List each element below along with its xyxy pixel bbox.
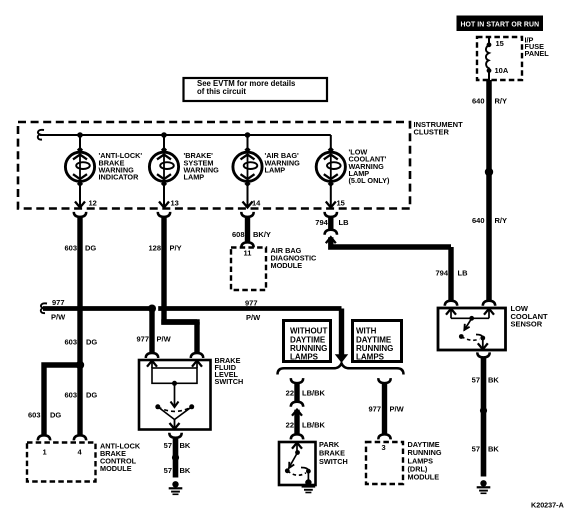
svg-text:LAMPS: LAMPS	[290, 353, 319, 362]
sensor terminal arrow left	[446, 309, 456, 319]
svg-text:22: 22	[286, 389, 294, 398]
park brake switch contact left	[285, 468, 290, 473]
svg-text:977: 977	[368, 405, 381, 414]
ground G at brake fluid switch	[169, 481, 183, 494]
svg-text:DG: DG	[86, 391, 97, 400]
label low coolant warning lamp	[349, 148, 391, 185]
svg-text:57: 57	[164, 466, 172, 475]
connector at sensor right terminal	[483, 301, 495, 306]
svg-text:57: 57	[472, 376, 480, 385]
label brake fluid level switch	[215, 356, 244, 386]
svg-text:MODULE: MODULE	[100, 464, 132, 473]
wire tap to lamp4	[330, 135, 332, 150]
svg-text:CLUSTER: CLUSTER	[414, 128, 450, 137]
park brake switch right contact	[306, 469, 311, 474]
svg-text:640: 640	[472, 97, 485, 106]
in-line connector female half	[325, 230, 337, 235]
lamp air bag warning lamp	[233, 147, 262, 187]
connector C2 pin13	[158, 212, 170, 217]
svg-text:4: 4	[78, 448, 83, 457]
bus wire in cluster	[40, 134, 331, 136]
svg-text:977: 977	[52, 298, 65, 307]
977 continuation hook	[41, 303, 47, 313]
node lamp2 tap	[161, 132, 167, 138]
svg-text:12: 12	[89, 199, 97, 208]
switch output V	[158, 407, 192, 420]
label 977 P/W DRL	[368, 405, 404, 414]
wire 57 BK from sensor	[481, 357, 487, 477]
label 57 BK sensor lower	[472, 445, 500, 454]
label 640 R/Y upper	[472, 97, 507, 106]
wire 977 P/W to DRL module	[382, 382, 387, 434]
connector at switch left terminal	[146, 353, 158, 358]
svg-text:R/Y: R/Y	[495, 97, 508, 106]
park brake switch lever	[289, 453, 298, 469]
in-line connector ball sensor	[480, 407, 487, 414]
wire 977 P/W horizontal	[43, 306, 342, 311]
sensor right contact	[480, 336, 485, 341]
label daytime running lamps DRL module	[408, 440, 442, 482]
splice on 640 wire	[485, 168, 493, 176]
sensor right contact hook	[476, 335, 483, 339]
svg-text:P/W: P/W	[51, 313, 66, 322]
svg-text:128: 128	[148, 244, 161, 253]
option box without DRL	[284, 321, 331, 362]
svg-text:LB: LB	[339, 218, 350, 227]
wire to ground inside switch	[307, 471, 309, 479]
wire 794 LB short	[328, 216, 333, 230]
svg-text:(5.0L ONLY): (5.0L ONLY)	[349, 176, 391, 185]
crossover gap	[155, 306, 158, 312]
switch actuator arrow	[171, 383, 179, 407]
wire lamp4 to pin 15	[326, 183, 336, 208]
svg-text:DG: DG	[85, 244, 96, 253]
label park brake switch	[319, 440, 348, 466]
label air bag warning lamp	[265, 151, 301, 174]
wire 640 R/Y from fuse to low coolant sensor	[486, 80, 492, 301]
label 57 BK sensor upper	[472, 376, 500, 385]
power source box HOT IN START OR RUN	[457, 16, 544, 32]
bus continuation hook	[38, 130, 44, 140]
wire 603 DG upper	[77, 216, 82, 365]
in-line connector male arrow	[292, 410, 302, 416]
anti-lock brake control module dashed box	[27, 443, 96, 482]
connector below brace left	[291, 378, 303, 383]
svg-text:LB/BK: LB/BK	[302, 389, 325, 398]
in-line connector male arrow	[326, 237, 336, 243]
svg-text:977: 977	[136, 335, 149, 344]
svg-text:603: 603	[28, 411, 41, 420]
svg-text:1: 1	[43, 448, 47, 457]
label low coolant sensor	[511, 304, 548, 328]
svg-text:LAMPS: LAMPS	[356, 353, 385, 362]
svg-text:P/Y: P/Y	[170, 244, 182, 253]
switch terminal arrow right	[192, 361, 202, 368]
svg-text:LB/BK: LB/BK	[302, 420, 325, 429]
svg-text:57: 57	[164, 441, 172, 450]
node junction 977 to switch	[148, 305, 156, 313]
label 603 DG	[64, 244, 96, 253]
in-line connector ball	[172, 454, 179, 461]
wire 603 DG left branch	[44, 362, 82, 434]
wire 57 BK from switch	[173, 437, 179, 478]
connector at air bag module	[241, 242, 253, 247]
svg-text:603: 603	[64, 391, 77, 400]
svg-text:14: 14	[252, 199, 261, 208]
node junction 603 split	[76, 361, 84, 369]
svg-text:SWITCH: SWITCH	[215, 377, 244, 386]
wire tap to lamp1	[79, 135, 81, 150]
park brake switch box	[279, 442, 316, 485]
node lamp3 tap	[245, 132, 251, 138]
I/P fuse panel dashed box	[477, 37, 522, 80]
node inner rect bottom	[172, 381, 177, 386]
connector at park brake switch	[291, 434, 303, 439]
wire 128 P/Y	[164, 216, 197, 353]
connector at ABS module pin 4	[74, 435, 86, 440]
arrow into brace	[336, 355, 348, 363]
svg-text:DG: DG	[50, 411, 61, 420]
label 977 P/W left	[51, 298, 66, 321]
wire 977 to brake fluid level switch	[149, 311, 154, 353]
svg-text:13: 13	[171, 199, 179, 208]
svg-text:DG: DG	[86, 338, 97, 347]
connector C3 pin14	[241, 212, 253, 217]
brake fluid level switch box	[139, 360, 211, 430]
connector at switch right terminal	[191, 353, 203, 358]
fuse F15 10A	[486, 37, 491, 80]
sensor terminal arrow right	[484, 309, 494, 319]
node lamp1 tap	[77, 132, 83, 138]
svg-text:R/Y: R/Y	[495, 216, 508, 225]
connector below switch	[169, 433, 181, 438]
sensor contact left	[459, 334, 464, 339]
label brake system warning lamp	[184, 151, 220, 181]
label anti-lock brake control module	[100, 442, 141, 474]
label 603 DG left branch	[28, 411, 61, 420]
svg-text:BK: BK	[180, 466, 191, 475]
svg-text:640: 640	[472, 216, 485, 225]
svg-text:LB: LB	[458, 269, 469, 278]
label 22 LB/BK lower	[286, 420, 326, 429]
svg-text:LAMP: LAMP	[265, 165, 286, 174]
connector at DRL module	[378, 434, 390, 439]
svg-text:BK: BK	[488, 376, 499, 385]
wire 22 LB/BK upper	[294, 382, 299, 402]
low coolant sensor box	[438, 308, 506, 350]
svg-text:INDICATOR: INDICATOR	[99, 173, 140, 182]
park brake switch dashed arc	[287, 471, 306, 475]
connector at ABS module pin 1	[38, 435, 50, 440]
option box with DRL	[353, 321, 402, 362]
svg-text:MODULE: MODULE	[271, 261, 303, 270]
air bag diagnostic module dashed box	[231, 248, 266, 291]
svg-text:22: 22	[286, 420, 294, 429]
sensor lever arrow	[464, 318, 472, 330]
label anti-lock brake warning indicator	[99, 151, 143, 181]
wire 977 drop to DRL brace	[339, 309, 344, 356]
wire 22 LB/BK lower	[294, 410, 299, 434]
label 794 LB	[315, 218, 349, 227]
wire lamp1 to pin 12	[75, 183, 85, 208]
label 977 P/W switch branch	[136, 335, 171, 344]
wire 603 DG right branch	[77, 365, 82, 435]
svg-text:P/W: P/W	[390, 405, 405, 414]
svg-text:P/W: P/W	[157, 335, 172, 344]
svg-text:HOT IN START OR RUN: HOT IN START OR RUN	[460, 21, 539, 28]
DRL module dashed box	[366, 442, 403, 484]
switch output arrow	[170, 420, 180, 430]
svg-text:LAMP: LAMP	[184, 173, 205, 182]
svg-text:608: 608	[232, 230, 245, 239]
label air bag diagnostic module	[271, 246, 318, 270]
wire 608 BK/Y	[245, 216, 250, 243]
switch terminal arrow left	[147, 361, 157, 368]
sensor pivot node	[469, 316, 474, 321]
svg-text:15: 15	[496, 39, 504, 48]
svg-text:15: 15	[337, 199, 345, 208]
svg-text:794: 794	[315, 218, 328, 227]
switch contact right	[189, 404, 194, 409]
note box See EVTM	[184, 78, 328, 101]
label 794 LB vertical run	[435, 269, 468, 278]
svg-text:603: 603	[64, 338, 77, 347]
lamp brake system warning lamp	[149, 147, 178, 187]
sensor dashed travel arc	[461, 337, 479, 341]
label 22 LB/BK	[286, 389, 326, 398]
svg-text:BK/Y: BK/Y	[253, 230, 271, 239]
label 977 P/W middle	[245, 299, 261, 323]
ground G at low coolant sensor	[477, 480, 491, 493]
svg-text:of this circuit: of this circuit	[197, 87, 246, 96]
svg-text:SWITCH: SWITCH	[319, 457, 348, 466]
svg-text:BK: BK	[488, 445, 499, 454]
connector below sensor	[477, 352, 489, 357]
sensor inner wire	[451, 317, 489, 319]
switch dashed travel arc	[158, 407, 192, 412]
connector below brace right	[378, 378, 390, 383]
wire tap to lamp3	[247, 135, 249, 150]
svg-text:K20237-A: K20237-A	[531, 500, 564, 509]
svg-text:SENSOR: SENSOR	[511, 320, 543, 329]
svg-text:BK: BK	[180, 441, 191, 450]
label 57 BK lower	[164, 466, 191, 475]
wire tap to lamp2	[163, 135, 165, 150]
svg-text:PANEL: PANEL	[525, 49, 550, 58]
label 608 BK/Y	[232, 230, 271, 239]
svg-text:603: 603	[64, 244, 77, 253]
lamp low coolant warning lamp	[316, 147, 345, 187]
ground G at park brake switch	[302, 479, 316, 492]
svg-text:MODULE: MODULE	[408, 473, 440, 482]
brace under option boxes	[278, 363, 404, 374]
svg-text:P/W: P/W	[246, 313, 261, 322]
label 603 DG second	[64, 338, 97, 347]
svg-text:794: 794	[435, 269, 448, 278]
switch inner rectangle	[152, 368, 197, 383]
svg-text:10A: 10A	[495, 66, 509, 75]
label 57 BK	[164, 441, 191, 450]
label 128 P/Y	[148, 244, 181, 253]
instrument cluster label	[414, 120, 464, 137]
sensor output arrow	[478, 338, 488, 349]
connector C4 pin15	[325, 212, 337, 217]
lamp anti-lock brake warning indicator	[65, 147, 94, 187]
park brake switch terminal arrow	[292, 443, 302, 453]
park brake switch right contact hook	[301, 468, 308, 472]
svg-text:11: 11	[244, 249, 252, 258]
svg-text:977: 977	[245, 299, 258, 308]
switch contact left	[155, 404, 160, 409]
in-line connector female half	[291, 402, 303, 407]
label 603 DG right branch	[64, 391, 97, 400]
instrument cluster dashed box	[18, 122, 410, 209]
svg-text:3: 3	[382, 443, 386, 452]
wire 794 LB to low coolant sensor	[328, 237, 451, 301]
label 640 R/Y lower	[472, 216, 507, 225]
connector at sensor left terminal	[445, 301, 457, 306]
wire lamp2 to pin 13	[159, 183, 169, 208]
wire lamp3 to pin 14	[243, 183, 253, 208]
svg-text:57: 57	[472, 445, 480, 454]
park brake switch pivot	[295, 450, 300, 455]
connector C1 pin12	[74, 212, 86, 217]
